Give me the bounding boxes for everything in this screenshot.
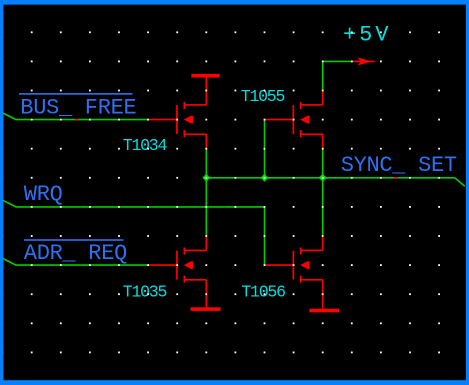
wire SYNC_SET node down to T1035 drain — [205, 178, 207, 251]
ground bar at T1035 source — [191, 307, 221, 311]
wire WRQ from left edge, down at x=264.5 to T1056 gate — [3, 200, 265, 265]
wire ADR_REQ from left edge to T1035 gate — [3, 258, 149, 265]
ground bar at T1056 source — [309, 309, 339, 313]
svg-text:T1034: T1034 — [123, 136, 168, 155]
junction node at T1055 gate / SYNC_SET row — [261, 174, 269, 182]
wire SYNC_SET output row to right edge — [206, 177, 465, 186]
transistor T1035 (NMOS, gate from ADR_REQ) — [148, 247, 206, 308]
wire +5V supply to T1055 drain — [323, 61, 353, 105]
wire SYNC_SET node down to T1056 drain — [322, 178, 324, 251]
wire T1055 source to SYNC_SET node — [322, 134, 324, 178]
svg-text:WRQ: WRQ — [24, 182, 63, 207]
wire T1034 source to SYNC_SET node — [205, 134, 207, 178]
junction node at T1055 source / SYNC_SET row — [319, 174, 327, 182]
power rail bar at T1034 drain — [191, 74, 219, 78]
svg-text:T1056: T1056 — [241, 282, 285, 301]
svg-text:T1035: T1035 — [123, 282, 167, 301]
net label ADR_REQ (active-low overline) — [24, 239, 127, 266]
svg-text:+5V: +5V — [343, 23, 391, 48]
transistor T1034 (NMOS, gate from BUS_FREE) — [148, 77, 206, 138]
transistor T1056 (NMOS, gate from WRQ) — [265, 247, 323, 308]
power symbol +5V arrow — [352, 57, 375, 65]
junction node at T1034 source / SYNC_SET row — [202, 174, 210, 182]
transistor T1055 (NMOS, gate from SYNC_SET node) — [265, 102, 323, 137]
svg-text:T1055: T1055 — [241, 87, 285, 106]
wire BUS_FREE from left edge to T1034 gate — [3, 113, 149, 121]
svg-text:SYNC_ SET: SYNC_ SET — [341, 153, 457, 178]
svg-text:ADR_ REQ: ADR_ REQ — [24, 241, 127, 266]
wire T1055 gate to SYNC_SET node — [264, 120, 266, 179]
net label BUS_FREE (active-low overline) — [19, 93, 137, 120]
svg-text:BUS_ FREE: BUS_ FREE — [20, 95, 136, 120]
